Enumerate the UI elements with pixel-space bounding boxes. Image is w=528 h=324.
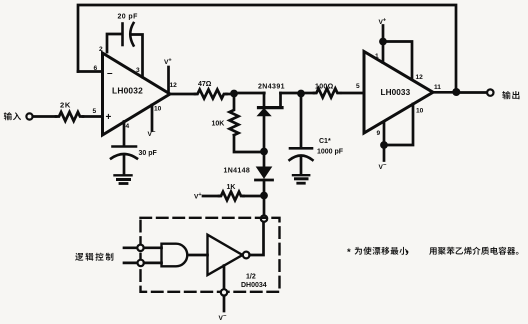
svg-text:30 pF: 30 pF [139,150,158,157]
wire U2 V- stub [383,145,386,161]
label 100Ω [315,83,334,90]
wire logic input 2 [124,262,138,265]
label V+ U2 [379,17,387,26]
note text [347,247,519,258]
wire gate node to diode [263,152,266,168]
wire R 47 to node A [226,93,234,96]
label pin 10 U1 [154,106,162,113]
wire V+ to pin 12 [383,42,412,80]
label 1K [227,184,236,191]
svg-text:5: 5 [93,108,97,115]
label V- U1 [148,130,156,138]
capacitor 30 pF [111,147,137,159]
node DH0034 output terminal [261,215,267,221]
label pin 3 U1 [136,67,140,74]
label 输入 [4,112,21,120]
label 2N4391 [258,84,285,91]
box 1/2 DH0034 dashed [141,218,280,292]
wire node A to JFET drain [234,92,264,95]
svg-text:10: 10 [154,106,162,113]
svg-text:10: 10 [416,108,424,115]
wire V+ to U2 [382,26,385,42]
node V- terminal on box [221,289,227,295]
label 47Ω [198,81,212,88]
label 30 pF [139,150,158,157]
wire node B to DH0034 output terminal [263,196,266,216]
resistor 100Ω [314,89,340,98]
wire JFET source to node C [281,92,302,95]
wire inverter output up [250,222,264,255]
op-amp U1 LH0032 [103,53,171,135]
label V- DH0034 [219,314,227,322]
svg-text:1: 1 [375,53,379,60]
label LH0033 [381,88,411,97]
wire C1 to ground [300,157,303,174]
label 1000 pF [317,149,344,156]
node V- junction U2 [380,141,388,149]
wire pin 1 lead [382,42,385,63]
label 1N4148 [224,168,251,175]
wire R 2K to pin 5 [83,115,102,118]
label pin 9 U2 [377,130,381,137]
wire V- below box [223,296,226,311]
ground under 30 pF [115,175,132,183]
svg-text:20 pF: 20 pF [118,14,139,21]
label pin 5 U2 [356,83,360,90]
svg-text:2K: 2K [60,101,71,110]
wire 30 pF to ground [123,155,126,174]
svg-text:12: 12 [170,82,178,89]
node C junction JFET-C1-100Ω [297,90,305,98]
node 输出 output terminal [487,89,493,95]
label pin 4 U1 [126,123,130,130]
svg-text:DH0034: DH0034 [241,282,267,289]
node D output junction [452,88,460,96]
svg-text:12: 12 [416,74,424,81]
resistor 10K [230,96,239,135]
svg-text:47Ω: 47Ω [198,81,212,88]
wire input 1 to AND gate [144,246,162,249]
wire logic input 1 [124,246,137,249]
wire node C to R 100 [301,92,314,95]
wire AND to inverter [190,254,208,257]
resistor 1K [219,192,244,201]
node inverter bubble [243,252,250,259]
label pin 11 U2 [434,84,441,91]
wire node C down to C1 [300,94,303,148]
node 输入 input terminal [26,113,32,119]
node gate junction [260,148,268,156]
label plus U1 [106,112,112,123]
wire R 1K to node B [244,195,265,198]
svg-text:100Ω: 100Ω [315,83,334,90]
node V+ junction U2 [379,38,387,46]
label pin 10 U2 [416,108,424,115]
wire JFET gate down [263,116,266,151]
label 2K [60,101,71,110]
svg-text:LH0032: LH0032 [112,86,143,96]
label LH0032 [112,86,143,96]
svg-text:+: + [106,112,112,123]
wire V+ to R 1K [203,195,219,198]
svg-text:LH0033: LH0033 [381,88,411,97]
svg-text:1/2: 1/2 [246,274,256,281]
svg-text:11: 11 [434,84,441,91]
wire pin 10 lead to V- [151,105,154,131]
svg-text:C1*: C1* [319,138,331,145]
wire node D to output terminal [459,91,487,94]
wire R 100 to U2 pin 5 [342,92,364,95]
svg-text:1K: 1K [227,184,236,191]
label pin 12 U1 [170,82,178,89]
label 20 pF [118,14,139,21]
wire inverter V- leg [223,266,226,290]
svg-text:2N4391: 2N4391 [258,84,285,91]
wire pin 4 lead [123,122,126,146]
svg-text:4: 4 [126,123,130,130]
label pin 12 U2 [416,74,424,81]
label 10K [212,121,225,128]
node logic input 2 terminal [138,260,144,266]
wire capacitor to pin 3 [132,35,143,78]
svg-text:5: 5 [356,83,360,90]
capacitor 20 pF [123,23,134,46]
wire V+ stub at U1 output [167,67,170,92]
node B junction diode-1K [260,192,268,200]
wire U1 output to R 47 [170,93,195,96]
svg-text:*: * [347,247,351,258]
label 输出 [502,91,519,99]
label minus U1 [107,68,113,79]
svg-text:6: 6 [94,65,98,72]
resistor 47Ω [195,90,226,99]
label pin 1 U2 [375,53,379,60]
svg-text:1N4148: 1N4148 [224,168,251,175]
wire U2 output to node D [433,91,456,94]
capacitor C1 1000 pF [290,148,313,160]
wire pin6 inverting input [78,70,102,73]
gate AND [162,244,188,267]
wire pin 9 lead [383,122,386,145]
node logic input 1 terminal [137,245,143,251]
svg-text:1000 pF: 1000 pF [317,149,344,156]
label pin 6 U1 [94,65,98,72]
gate inverter [208,235,243,275]
diode D1 1N4148 [256,167,273,180]
label V+ U1 [164,57,172,66]
label 逻辑控制 [75,253,113,261]
svg-text:3: 3 [136,67,140,74]
svg-text:10K: 10K [212,121,225,128]
wire diode to 1K node [263,180,266,196]
svg-text:2: 2 [99,46,103,53]
label pin 2 U1 [99,46,103,53]
node A junction 47-10K-JFET [230,90,238,98]
wire 10K to gate node [234,135,261,152]
svg-text:–: – [107,68,113,79]
transistor Q1 2N4391 JFET [258,93,282,116]
resistor 2K [56,112,83,121]
ground under C1 [293,175,309,183]
label V- U2 [379,163,387,171]
label pin 5 U1 [93,108,97,115]
op-amp U2 LH0033 [364,52,433,134]
svg-text:9: 9 [377,130,381,137]
label C1* [319,138,331,145]
label V+ 1K [194,192,202,201]
wire input 2 to AND gate [144,262,162,265]
wire pin 2 stub to capacitor [107,34,122,52]
wire feedback loop top [78,5,456,92]
wire V- to pin 10 [384,104,413,145]
label 1/2 DH0034 [241,274,267,290]
wire input to R 2K [33,115,56,118]
